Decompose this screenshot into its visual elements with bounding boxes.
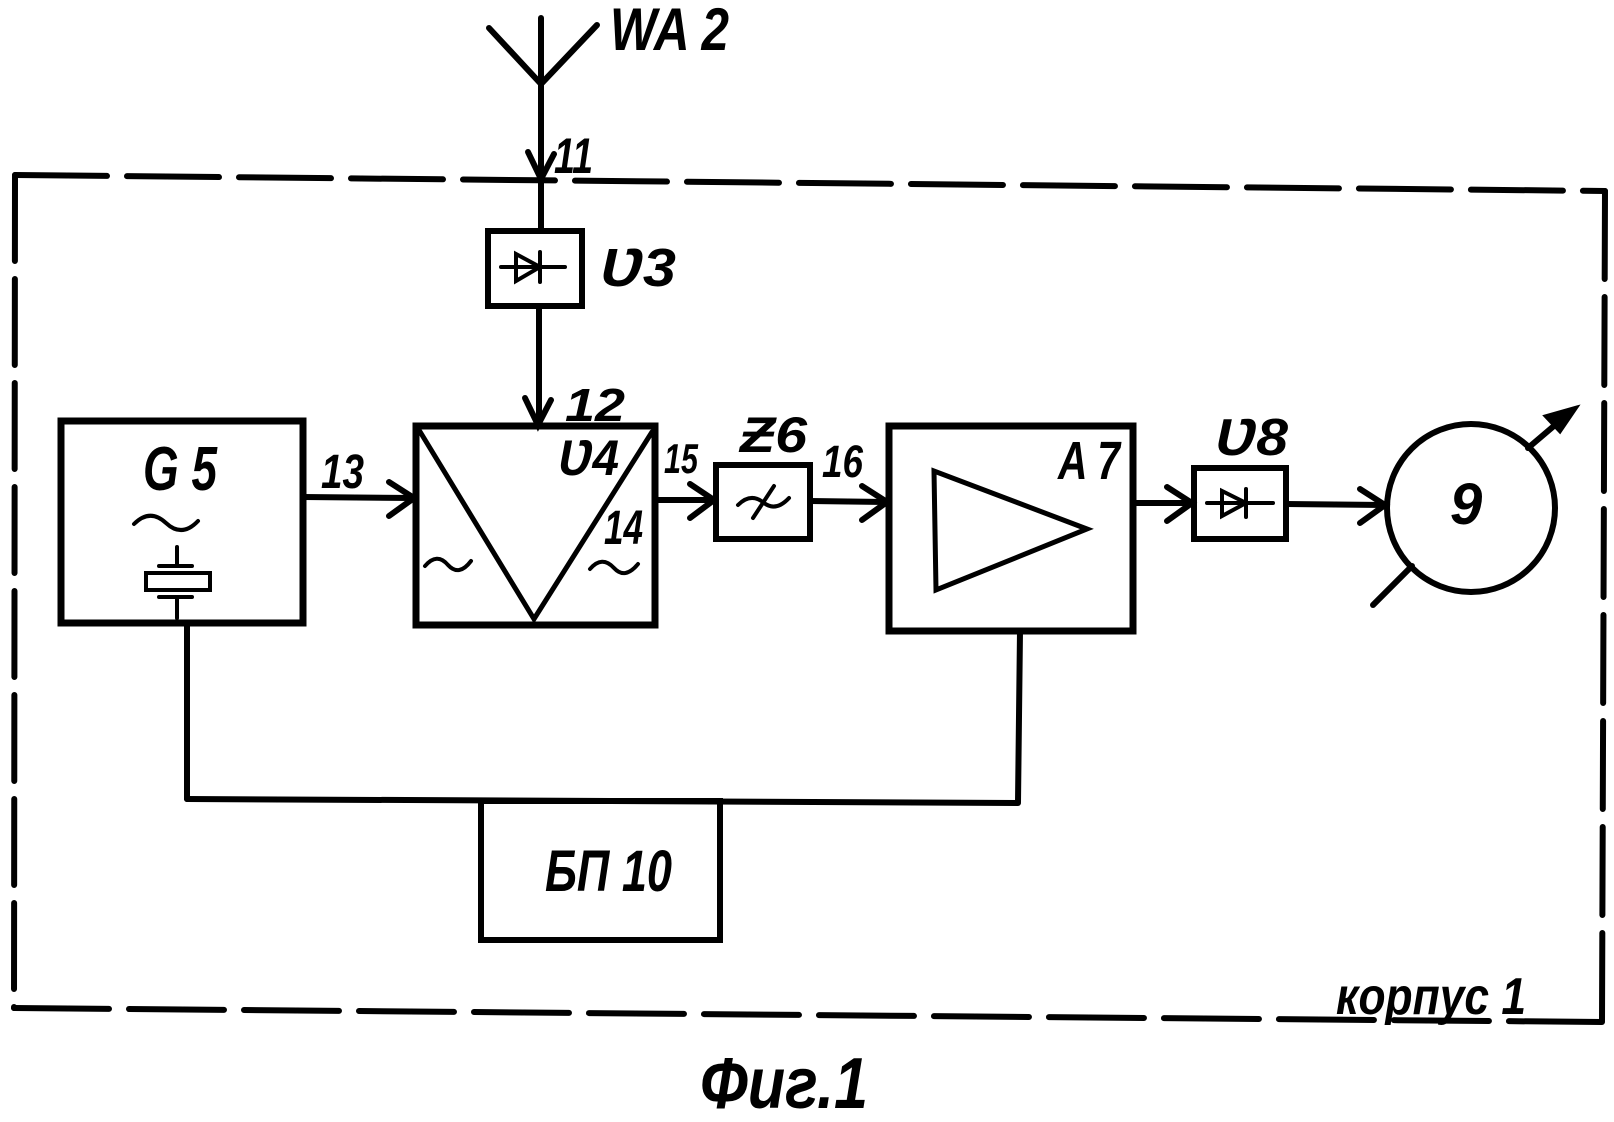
- oscillator box G5: [61, 421, 303, 623]
- enclosure dashed frame (корпус) top: [15, 175, 1605, 191]
- power supply box БП10: [481, 801, 720, 940]
- quartz crystal symbol in G5: [175, 547, 179, 564]
- svg-text:Ƶ6: Ƶ6: [738, 407, 809, 463]
- wire 16 Z6 to amplifier A7 with arrowhead: [810, 486, 887, 520]
- filter symbol inside Z6: [738, 498, 789, 507]
- svg-text:Ʋ3: Ʋ3: [600, 238, 676, 298]
- diode symbol inside V3: [501, 265, 565, 269]
- svg-text:Ʋ8: Ʋ8: [1215, 409, 1288, 467]
- enclosure dashed frame bottom: [14, 1008, 1602, 1022]
- svg-text:14: 14: [604, 502, 643, 555]
- sine symbol in G5: [134, 516, 198, 530]
- svg-text:корпус 1: корпус 1: [1336, 968, 1526, 1026]
- svg-text:A 7: A 7: [1056, 431, 1122, 491]
- svg-text:БП 10: БП 10: [545, 839, 672, 904]
- mixer box U4: [416, 426, 655, 625]
- wire G5 down to supply bus: [184, 623, 190, 799]
- sine mark left in U4: [425, 559, 471, 570]
- amplifier box A7: [889, 426, 1133, 631]
- wire V8 to indicator 9 with arrowhead: [1286, 489, 1385, 523]
- arrowhead 11 (antenna feed into enclosure): [528, 152, 554, 179]
- diode symbol inside V8: [1207, 501, 1273, 505]
- svg-text:9: 9: [1450, 472, 1482, 537]
- indicator (meter) 9: [1373, 407, 1577, 605]
- svg-text:G 5: G 5: [143, 435, 218, 504]
- wire V3 to mixer U4 with arrowhead 12: [525, 306, 551, 425]
- amplifier triangle: [934, 471, 1087, 590]
- wire A7 down to supply bus: [1018, 631, 1020, 802]
- meter arrow lower segment: [1373, 566, 1412, 605]
- svg-text:15: 15: [664, 435, 698, 482]
- svg-text:Ʋ4: Ʋ4: [558, 430, 619, 486]
- wire 15 mixer to filter Z6 with arrowhead: [655, 484, 714, 518]
- wire 13 G5 to mixer with arrowhead: [303, 482, 414, 516]
- meter arrow upper segment: [1528, 414, 1568, 448]
- svg-text:Фиг.1: Фиг.1: [700, 1044, 868, 1122]
- enclosure dashed frame left: [14, 175, 15, 1008]
- svg-text:WA 2: WA 2: [610, 0, 729, 63]
- svg-text:16: 16: [822, 436, 864, 487]
- supply bus horizontal: [187, 799, 1018, 803]
- filter box Z6: [716, 465, 810, 539]
- antenna WA2: [489, 18, 597, 231]
- enclosure dashed frame right: [1602, 191, 1605, 1022]
- svg-text:13: 13: [321, 446, 364, 499]
- sine mark right in U4: [590, 562, 638, 573]
- diode box V3: [488, 231, 582, 306]
- svg-text:11: 11: [554, 128, 593, 184]
- wire A7 to V8 with arrowhead: [1133, 487, 1192, 521]
- diode box V8: [1194, 468, 1286, 539]
